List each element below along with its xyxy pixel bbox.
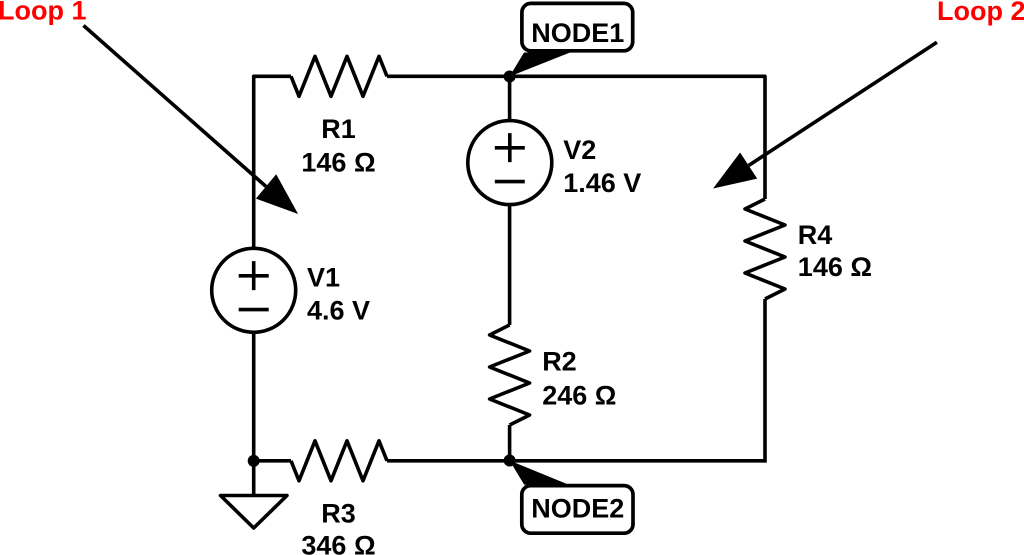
wire middle node1 to V2: [508, 77, 512, 121]
svg-text:R2: R2: [542, 347, 577, 377]
wire bottom left node to R3: [254, 459, 291, 463]
NODE1 callout pointer: [510, 53, 570, 77]
wire middle V2 to R2: [508, 205, 512, 325]
svg-text:V2: V2: [563, 135, 596, 165]
ground symbol: [221, 496, 288, 529]
svg-text:Loop 1: Loop 1: [0, 0, 87, 26]
wire middle R2 to node2: [508, 425, 512, 461]
wire bottom from R3 through NODE2 to right corner: [387, 459, 765, 463]
wire top from R1 through NODE1 to right corner: [387, 76, 765, 199]
V1 plus sign: [239, 261, 269, 290]
wire left vertical top + top wire to R1: [254, 76, 291, 248]
voltage source V1: [212, 248, 296, 332]
svg-text:R1: R1: [321, 114, 356, 144]
loop 1 arrowhead: [256, 174, 298, 214]
wire left vertical V1 to bottom node: [252, 332, 256, 461]
svg-text:1.46 V: 1.46 V: [563, 168, 641, 198]
svg-text:NODE1: NODE1: [531, 18, 624, 48]
V2 minus sign: [495, 180, 525, 184]
resistor R4: [745, 199, 785, 299]
svg-text:R4: R4: [798, 220, 833, 250]
wire ground stub: [252, 461, 256, 496]
svg-text:R3: R3: [321, 498, 356, 528]
voltage source V2: [468, 121, 552, 205]
svg-text:NODE2: NODE2: [531, 493, 624, 523]
svg-text:Loop 2: Loop 2: [937, 0, 1024, 26]
loop 2 arrow line: [749, 42, 937, 165]
node ground junction dot: [248, 455, 260, 467]
resistor R2: [490, 325, 530, 425]
svg-text:4.6 V: 4.6 V: [307, 296, 370, 326]
NODE2 callout pointer: [510, 461, 569, 485]
node NODE2 junction dot: [504, 455, 516, 467]
NODE1 callout box: [522, 3, 633, 50]
V2 plus sign: [495, 133, 525, 162]
svg-text:246 Ω: 246 Ω: [542, 380, 616, 410]
svg-text:146 Ω: 146 Ω: [798, 252, 872, 282]
wire right vertical bottom: [763, 299, 767, 463]
resistor R3: [291, 441, 387, 481]
loop 1 arrow line: [84, 26, 267, 187]
svg-text:V1: V1: [307, 262, 340, 292]
resistor R1: [291, 56, 387, 96]
svg-text:346 Ω: 346 Ω: [301, 530, 375, 555]
NODE2 callout box: [522, 486, 633, 534]
V1 minus sign: [239, 308, 269, 312]
loop 2 arrowhead: [713, 153, 757, 189]
node NODE1 junction dot: [504, 71, 516, 83]
svg-text:146 Ω: 146 Ω: [301, 147, 375, 177]
